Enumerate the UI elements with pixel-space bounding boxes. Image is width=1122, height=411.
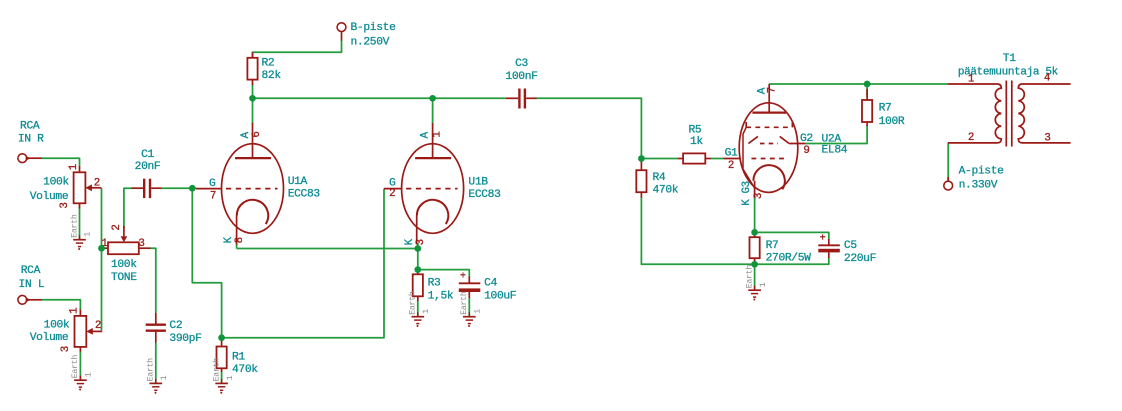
resistor R7 screen xyxy=(862,89,872,126)
svg-text:Earth: Earth xyxy=(146,358,156,382)
pin K U1A xyxy=(223,236,235,243)
label C3 xyxy=(505,58,537,83)
junction node 10 xyxy=(751,229,758,236)
label RCA IN R xyxy=(18,120,44,145)
svg-text:100k: 100k xyxy=(43,177,69,189)
pin 7 U1A xyxy=(210,191,216,203)
svg-text:2: 2 xyxy=(968,132,974,144)
svg-text:RCA: RCA xyxy=(21,265,41,277)
pin 1 U1B xyxy=(432,131,444,137)
svg-text:1: 1 xyxy=(422,309,431,314)
label earth 3 xyxy=(146,358,169,382)
svg-text:R1: R1 xyxy=(232,352,245,364)
pin 1 T1 xyxy=(968,74,974,86)
svg-text:R2: R2 xyxy=(262,58,275,70)
wire to C4 xyxy=(418,270,470,277)
pin 1 TONE xyxy=(101,238,107,250)
connector RCA IN R xyxy=(18,154,42,163)
svg-text:1: 1 xyxy=(226,375,235,380)
svg-text:R7: R7 xyxy=(879,103,892,115)
svg-text:Earth: Earth xyxy=(744,265,754,289)
wire grid node drop to R1 xyxy=(192,188,221,338)
wire EL84 cathode xyxy=(754,196,756,232)
ground earth 2 xyxy=(74,376,87,391)
svg-text:100k: 100k xyxy=(44,319,70,331)
svg-text:1: 1 xyxy=(85,372,94,377)
svg-text:2: 2 xyxy=(111,224,123,230)
label Volume L xyxy=(30,319,70,344)
potentiometer RV2 Volume xyxy=(75,310,103,352)
svg-text:Earth: Earth xyxy=(408,291,418,315)
pin 2 U1B xyxy=(389,188,395,200)
pin 2 Volume L xyxy=(95,320,101,332)
wire U1B anode xyxy=(432,98,434,124)
ground earth 5 xyxy=(412,312,425,327)
svg-text:3: 3 xyxy=(1044,133,1050,145)
pin 9 U2A xyxy=(803,145,809,157)
junction node 4 xyxy=(864,81,871,88)
wire RCA IN L to volume xyxy=(42,300,81,310)
svg-text:G: G xyxy=(209,178,216,190)
label C4 xyxy=(484,277,516,302)
label earth 2 xyxy=(70,355,93,379)
svg-text:1: 1 xyxy=(432,131,444,137)
svg-text:C1: C1 xyxy=(141,149,154,161)
svg-text:1: 1 xyxy=(160,375,169,380)
svg-text:T1: T1 xyxy=(1003,53,1016,65)
svg-text:C4: C4 xyxy=(484,277,497,289)
pin 8 U1A xyxy=(234,237,246,243)
pin 2 TONE xyxy=(111,224,123,230)
svg-text:100R: 100R xyxy=(879,116,905,128)
pentode U2A EL84 xyxy=(724,84,806,197)
junction node 3 xyxy=(638,155,645,162)
junction node 5 xyxy=(189,185,196,192)
label R4 xyxy=(653,172,679,196)
svg-text:3: 3 xyxy=(138,238,144,250)
svg-text:n.330V: n.330V xyxy=(959,179,998,191)
capacitor C3 xyxy=(506,89,537,109)
svg-text:2: 2 xyxy=(728,160,734,172)
svg-text:7: 7 xyxy=(210,191,216,203)
svg-text:R3: R3 xyxy=(428,277,441,289)
label earth 7 xyxy=(744,265,767,289)
pin 3 U1B xyxy=(415,239,427,245)
label earth 4 xyxy=(211,358,234,382)
junction node 8 xyxy=(414,245,421,252)
svg-text:n.250V: n.250V xyxy=(351,37,390,49)
pin 3 TONE xyxy=(138,238,144,250)
wire C1 to grid node xyxy=(161,187,196,189)
pin 4 T1 xyxy=(1044,73,1050,85)
ground earth 6 xyxy=(463,312,476,327)
label RCA IN L xyxy=(19,265,45,291)
svg-text:C5: C5 xyxy=(844,240,857,252)
svg-text:U1A: U1A xyxy=(288,176,308,188)
svg-text:1k: 1k xyxy=(690,136,703,148)
svg-text:1: 1 xyxy=(759,282,768,287)
svg-text:B-piste: B-piste xyxy=(351,22,397,34)
pin 1 Volume L xyxy=(69,308,81,314)
wire R7 100R bottom to G2 xyxy=(805,126,867,144)
svg-text:20nF: 20nF xyxy=(135,161,161,173)
svg-text:Earth: Earth xyxy=(459,291,469,315)
label earth 5 xyxy=(408,291,431,315)
pin G1 U2A xyxy=(725,148,738,160)
wire volume R pin3 to earth xyxy=(79,207,81,240)
svg-text:1: 1 xyxy=(968,74,974,86)
pin 2 T1 xyxy=(968,132,974,144)
pin 3 Volume R xyxy=(59,202,71,208)
svg-text:ECC83: ECC83 xyxy=(468,189,501,201)
label R3 xyxy=(428,277,454,302)
label B-piste xyxy=(351,22,397,49)
svg-text:C3: C3 xyxy=(515,58,528,70)
pin G U1A xyxy=(209,178,216,190)
resistor R4 xyxy=(636,159,646,198)
wire C2 bottom to earth xyxy=(155,342,157,383)
svg-text:IN R: IN R xyxy=(18,133,44,145)
svg-text:Volume: Volume xyxy=(30,191,69,203)
svg-text:8: 8 xyxy=(234,237,246,243)
svg-text:G1: G1 xyxy=(725,148,738,160)
resistor R1 xyxy=(217,338,227,372)
svg-text:7: 7 xyxy=(767,87,779,93)
power connector B-piste xyxy=(337,23,346,41)
pin K U1B xyxy=(404,238,416,245)
label TONE xyxy=(111,259,137,284)
pin 3 T1 xyxy=(1044,133,1050,145)
wire tone pin3 to C2 xyxy=(150,248,156,313)
svg-text:270R/5W: 270R/5W xyxy=(766,253,812,265)
pin 2 U2A xyxy=(728,160,734,172)
wire volume L pin3 to earth xyxy=(79,350,81,380)
svg-text:3: 3 xyxy=(59,202,71,208)
svg-text:100uF: 100uF xyxy=(484,290,516,302)
ground earth 7 xyxy=(748,286,761,301)
svg-text:R7: R7 xyxy=(766,240,779,252)
svg-text:A-piste: A-piste xyxy=(959,165,1005,177)
svg-text:RCA: RCA xyxy=(20,120,40,132)
svg-text:Earth: Earth xyxy=(69,214,79,238)
svg-text:9: 9 xyxy=(803,145,809,157)
svg-text:470k: 470k xyxy=(232,364,258,376)
label R7 100R xyxy=(879,103,905,129)
svg-text:+: + xyxy=(820,234,826,245)
wire cathode rail U1A-U1B xyxy=(237,248,418,250)
label T1 xyxy=(958,53,1059,78)
wire wiper bus xyxy=(101,188,103,331)
power connector A-piste xyxy=(944,177,953,190)
junction node 11 xyxy=(751,261,758,268)
svg-text:2: 2 xyxy=(389,188,395,200)
label U2A xyxy=(822,134,848,157)
resistor R3 xyxy=(413,270,423,301)
svg-text:100k: 100k xyxy=(111,259,137,271)
label C2 xyxy=(169,320,201,345)
transformer T1 xyxy=(948,81,1071,147)
wire R3 bottom to earth xyxy=(417,301,419,317)
label earth 1 xyxy=(69,214,92,238)
pin A U1A xyxy=(240,131,252,138)
wire U1A cathode drop xyxy=(236,243,238,249)
wire RCA IN R to volume xyxy=(42,158,80,166)
pin 6 U1A xyxy=(251,131,263,137)
svg-text:1: 1 xyxy=(68,164,80,170)
pin 7 U2A xyxy=(767,87,779,93)
svg-text:+: + xyxy=(460,272,466,283)
svg-text:82k: 82k xyxy=(262,70,282,82)
pin A U2A xyxy=(756,87,768,94)
svg-text:1: 1 xyxy=(474,309,483,314)
wire C4 bottom to earth xyxy=(468,298,470,317)
wire R4 node to R5 xyxy=(641,158,678,160)
wire cathode earth node to earth xyxy=(754,264,756,290)
junction node 9 xyxy=(414,266,421,273)
label R7 270R xyxy=(766,240,812,265)
wire R2 bottom to node xyxy=(252,84,254,98)
label earth 6 xyxy=(459,291,482,315)
svg-text:A: A xyxy=(420,131,432,138)
ground earth 4 xyxy=(215,379,228,394)
svg-text:Volume: Volume xyxy=(30,332,69,344)
svg-text:G2: G2 xyxy=(800,133,813,145)
svg-text:100nF: 100nF xyxy=(505,71,537,83)
svg-text:4: 4 xyxy=(1044,73,1050,85)
svg-text:3: 3 xyxy=(60,346,72,352)
pin G U1B xyxy=(389,178,396,190)
pin 3 U2A xyxy=(753,193,765,199)
svg-text:K G3: K G3 xyxy=(741,181,753,206)
junction node 7 xyxy=(218,334,225,341)
label U1A xyxy=(288,176,321,200)
svg-text:1: 1 xyxy=(84,232,93,237)
svg-text:C2: C2 xyxy=(169,320,182,332)
wire B-piste to R2 xyxy=(253,40,342,58)
wire plate rail left (node to C3) xyxy=(253,97,506,99)
label U1B xyxy=(468,177,501,202)
svg-text:3: 3 xyxy=(415,239,427,245)
wire cathode node to R3 C4 xyxy=(417,249,419,270)
ground earth 3 xyxy=(150,379,163,394)
wire R7 100R top xyxy=(866,84,868,97)
capacitor C4 xyxy=(459,272,481,299)
label C1 xyxy=(135,149,161,173)
wire EL84 anode rail xyxy=(769,83,948,85)
svg-text:Earth: Earth xyxy=(70,355,80,379)
pin K G3 U2A xyxy=(741,181,753,206)
potentiometer RV1 Volume xyxy=(74,166,102,209)
triode U1A ECC83 xyxy=(196,123,284,245)
label R5 xyxy=(689,125,704,148)
svg-text:U1B: U1B xyxy=(468,177,488,189)
capacitor C1 xyxy=(131,179,161,198)
svg-text:220uF: 220uF xyxy=(844,253,876,265)
svg-text:6: 6 xyxy=(251,131,263,137)
resistor R5 xyxy=(678,153,711,163)
svg-text:Earth: Earth xyxy=(211,358,221,382)
svg-text:IN L: IN L xyxy=(19,279,45,291)
wire U1A anode xyxy=(252,98,254,124)
svg-text:TONE: TONE xyxy=(111,272,137,284)
pin 3 Volume L xyxy=(60,346,72,352)
resistor R7 cathode xyxy=(750,232,760,263)
svg-text:1,5k: 1,5k xyxy=(428,290,454,302)
junction node 2 xyxy=(429,95,436,102)
potentiometer RV3 TONE xyxy=(102,226,151,254)
svg-text:2: 2 xyxy=(94,178,100,190)
pin A U1B xyxy=(420,131,432,138)
wire C5 bottom xyxy=(755,258,829,265)
wire R1 bottom to earth xyxy=(221,372,223,384)
junction node 1 xyxy=(249,95,256,102)
label A-piste xyxy=(959,165,1005,191)
svg-text:390pF: 390pF xyxy=(169,333,201,345)
junction node 6 xyxy=(98,245,105,252)
svg-text:ECC83: ECC83 xyxy=(288,188,321,200)
label C5 xyxy=(844,240,876,265)
svg-text:EL84: EL84 xyxy=(822,144,848,156)
wire R1 node to U1B grid xyxy=(222,189,384,338)
pin G2 U2A xyxy=(800,133,813,145)
wire U1B cathode drop xyxy=(417,243,419,249)
wire cathode node to C5 xyxy=(755,232,829,239)
label R2 xyxy=(262,58,282,83)
svg-text:1: 1 xyxy=(69,308,81,314)
pin 2 Volume R xyxy=(94,178,100,190)
svg-text:3: 3 xyxy=(753,193,765,199)
wire C3 to R4 node xyxy=(536,98,641,158)
svg-text:2: 2 xyxy=(95,320,101,332)
ground earth 1 xyxy=(73,235,86,250)
label R1 xyxy=(232,352,258,377)
wire R4 bottom to cathode earth node xyxy=(641,197,754,264)
resistor R2 xyxy=(247,52,257,85)
pin 1 Volume R xyxy=(68,164,80,170)
capacitor C2 xyxy=(146,313,166,343)
wire R5 to G1 xyxy=(711,158,724,160)
svg-text:R5: R5 xyxy=(689,125,702,137)
label Volume R xyxy=(30,177,70,204)
capacitor C5 xyxy=(818,234,840,258)
wire tone wiper to C1 xyxy=(124,188,132,228)
svg-text:470k: 470k xyxy=(653,185,679,197)
wire A-piste to T1 pin2 xyxy=(947,143,949,181)
triode U1B ECC83 xyxy=(384,123,464,245)
svg-text:R4: R4 xyxy=(653,172,666,184)
connector RCA IN L xyxy=(18,295,42,304)
